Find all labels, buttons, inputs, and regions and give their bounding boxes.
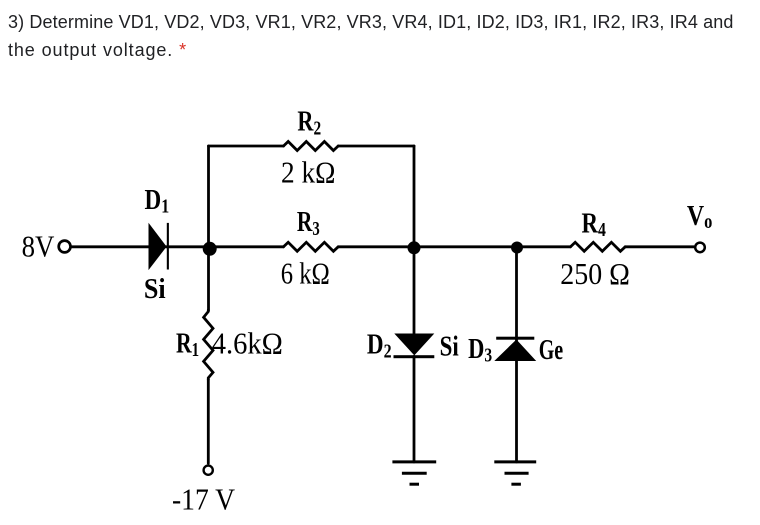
svg-text:Si: Si — [144, 272, 166, 305]
svg-text:R1: R1 — [176, 326, 199, 360]
wire R1 to -17V terminal — [207, 380, 210, 464]
ground under D3 — [494, 462, 536, 484]
svg-text:R2: R2 — [297, 105, 321, 139]
resistor R2 — [284, 142, 339, 151]
wire top branch right — [338, 145, 414, 148]
ground under D2 — [392, 462, 436, 484]
source terminal 8V — [59, 241, 71, 253]
diode D3 triangle — [494, 340, 536, 362]
wire right vertical (top corner down through node B to D2) — [413, 146, 416, 335]
svg-text:4.6kΩ: 4.6kΩ — [212, 327, 283, 361]
wire node C to R4 — [517, 245, 571, 248]
svg-text:-17 V: -17 V — [172, 483, 235, 517]
terminal -17V — [204, 466, 213, 475]
svg-text:R3: R3 — [297, 205, 320, 240]
svg-text:R4: R4 — [582, 207, 606, 241]
diode D1 cathode bar — [167, 223, 169, 270]
wire R4 to output terminal — [625, 245, 694, 248]
diode D2 cathode bar — [394, 355, 435, 358]
wire source to D1 — [72, 245, 149, 248]
svg-text:Vo: Vo — [687, 199, 712, 232]
node B junction dot — [408, 241, 421, 254]
node A junction dot — [203, 242, 217, 256]
wire D2 branch (bar to ground) — [413, 356, 416, 462]
svg-text:Ge: Ge — [539, 335, 563, 366]
wire D3 branch (node C down through D3 to ground) — [515, 247, 518, 462]
svg-text:250 Ω: 250 Ω — [560, 258, 630, 292]
wire node B to node C — [414, 245, 517, 248]
resistor R1 — [204, 310, 213, 379]
wire left vertical (top corner to R1 top) — [207, 146, 210, 310]
wire node A to R3 — [209, 245, 284, 248]
svg-text:Si: Si — [440, 330, 459, 362]
diode D2 triangle — [394, 334, 434, 356]
output terminal Vo — [695, 243, 705, 253]
node C junction dot — [511, 242, 523, 254]
svg-text:2 kΩ: 2 kΩ — [281, 156, 335, 190]
wire D1 to node A — [166, 245, 209, 248]
svg-text:D2: D2 — [367, 328, 392, 362]
svg-text:8V: 8V — [22, 230, 55, 264]
svg-text:D3: D3 — [468, 332, 492, 366]
resistor R4 — [571, 242, 626, 251]
wire top branch left — [209, 145, 284, 148]
svg-text:D1: D1 — [145, 183, 170, 217]
svg-text:6 kΩ: 6 kΩ — [281, 257, 330, 291]
resistor R3 — [284, 242, 339, 251]
diode D1 triangle — [149, 223, 167, 270]
wire R3 to node B — [338, 245, 414, 248]
diode D3 cathode bar — [496, 337, 534, 340]
